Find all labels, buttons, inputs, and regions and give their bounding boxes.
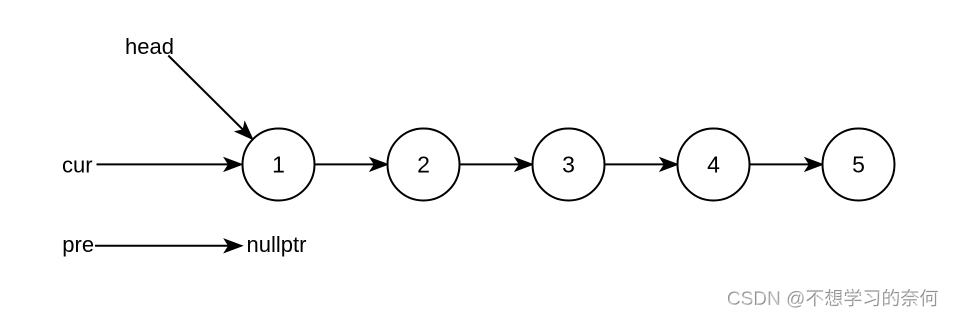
svg-text:1: 1 xyxy=(272,152,285,178)
wire arrow 4 to 5 xyxy=(751,159,822,170)
svg-text:2: 2 xyxy=(417,152,430,178)
node 3 xyxy=(533,129,605,201)
svg-text:4: 4 xyxy=(707,152,720,178)
svg-text:head: head xyxy=(125,34,174,59)
node 2 xyxy=(388,129,460,201)
svg-text:cur: cur xyxy=(62,153,93,178)
wire arrow 1 to 2 xyxy=(316,159,387,170)
node 4 xyxy=(678,129,750,201)
wire cur arrow xyxy=(97,159,241,170)
wire head arrow xyxy=(168,56,256,143)
wire arrow 2 to 3 xyxy=(461,159,532,170)
watermark CSDN @不想学习的奈何 xyxy=(727,289,939,311)
node 5 xyxy=(823,129,895,201)
node 1 xyxy=(243,129,315,201)
svg-text:5: 5 xyxy=(852,152,865,178)
wire pre arrow xyxy=(95,240,241,251)
svg-text:nullptr: nullptr xyxy=(247,232,307,257)
svg-text:3: 3 xyxy=(562,152,575,178)
svg-text:pre: pre xyxy=(62,232,94,257)
wire arrow 3 to 4 xyxy=(606,159,677,170)
